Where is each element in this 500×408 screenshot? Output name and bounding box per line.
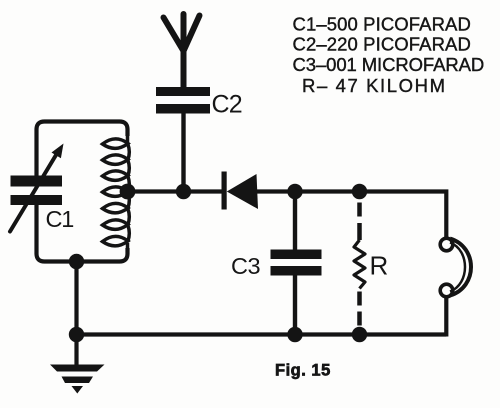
svg-text:C1–500 PICOFARAD: C1–500 PICOFARAD (293, 13, 471, 34)
wire antenna lead from C2 down to node (181, 114, 185, 194)
node junction dot coil tap (120, 184, 136, 200)
resistor R dashed top lead (357, 203, 362, 241)
wire C3 bottom lead (293, 274, 297, 335)
capacitor C1 arrow (variable) (10, 153, 58, 232)
diode D1 triangle (227, 174, 258, 209)
node junction dot C3 bottom (287, 327, 302, 342)
svg-text:C3: C3 (231, 253, 260, 279)
tank circuit top wire (37, 122, 128, 178)
capacitor C1 plates (11, 176, 63, 206)
wire earphone bottom lead (444, 297, 448, 337)
inductor L1 coil (103, 130, 130, 250)
node junction dot tank bottom (69, 254, 84, 269)
wire main horizontal from coil tap to diode (126, 189, 222, 193)
node junction dot R top (352, 184, 367, 199)
ground symbol (50, 365, 105, 394)
earphone diaphragm arcs (450, 239, 471, 296)
node junction dot ground bus left (69, 327, 84, 342)
earphone bottom terminal circle (440, 284, 453, 297)
capacitor C3 plates (271, 250, 322, 276)
svg-text:R– 47 KILOHM: R– 47 KILOHM (302, 75, 447, 96)
resistor R dashed bottom lead (357, 292, 362, 326)
capacitor C2 (156, 87, 210, 114)
node junction dot R bottom (352, 327, 367, 342)
node junction dot antenna (176, 184, 191, 199)
svg-text:C3–001 MICROFARAD: C3–001 MICROFARAD (293, 54, 485, 75)
svg-text:R: R (370, 251, 389, 281)
antenna (164, 14, 200, 88)
wire bottom bus (77, 332, 446, 336)
wire C3 top lead (293, 192, 297, 252)
diode D1 cathode bar (222, 172, 227, 210)
parts list text (293, 13, 485, 96)
earphone top terminal circle (440, 238, 453, 251)
svg-text:C2: C2 (212, 91, 242, 119)
wire stem from tank bottom to ground bus (74, 262, 78, 337)
wire from diode to top-right corner and down to earphone (256, 192, 446, 239)
wire ground stem (74, 335, 78, 366)
node junction dot C3 top (287, 184, 302, 199)
svg-text:C1: C1 (46, 206, 74, 232)
svg-text:C2–220 PICOFARAD: C2–220 PICOFARAD (293, 34, 471, 55)
tank circuit bottom wire (37, 205, 128, 262)
resistor R zigzag (354, 240, 365, 289)
svg-text:Fig. 15: Fig. 15 (275, 362, 331, 380)
